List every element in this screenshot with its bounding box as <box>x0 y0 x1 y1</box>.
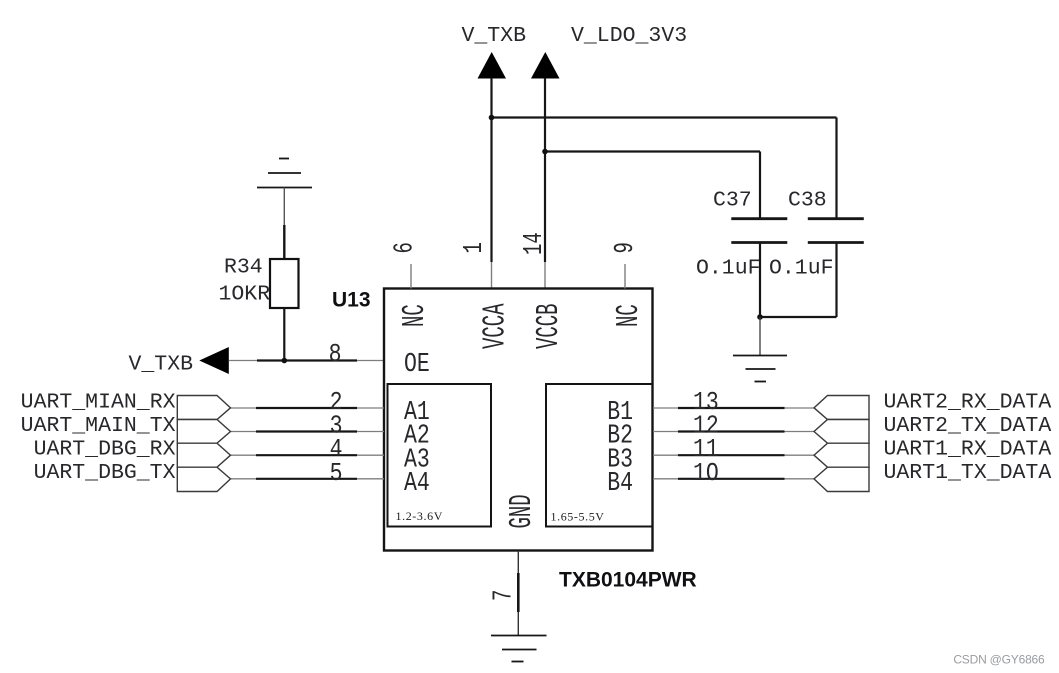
svg-text:OE: OE <box>404 350 430 380</box>
svg-text:CSDN @GY6866: CSDN @GY6866 <box>953 653 1045 667</box>
svg-text:C37: C37 <box>713 189 752 213</box>
svg-text:VCCA: VCCA <box>477 303 513 349</box>
svg-text:1OKR: 1OKR <box>219 283 271 307</box>
svg-text:NC: NC <box>610 304 646 327</box>
svg-text:UART1_TX_DATA: UART1_TX_DATA <box>884 461 1052 485</box>
svg-text:7: 7 <box>489 590 519 601</box>
svg-text:O.1uF: O.1uF <box>696 257 761 281</box>
svg-text:U13: U13 <box>332 289 371 312</box>
svg-text:TXB0104PWR: TXB0104PWR <box>559 569 697 592</box>
svg-text:1.2-3.6V: 1.2-3.6V <box>396 509 443 523</box>
svg-text:V_TXB: V_TXB <box>129 353 194 377</box>
svg-text:8: 8 <box>329 340 342 370</box>
svg-text:O.1uF: O.1uF <box>769 257 834 281</box>
svg-text:A4: A4 <box>404 469 430 499</box>
svg-text:UART2_TX_DATA: UART2_TX_DATA <box>884 414 1052 438</box>
svg-text:14: 14 <box>519 232 549 255</box>
svg-text:NC: NC <box>396 304 432 327</box>
svg-text:B4: B4 <box>607 469 633 499</box>
svg-text:GND: GND <box>503 494 539 528</box>
svg-text:1.65-5.5V: 1.65-5.5V <box>551 510 605 524</box>
svg-text:UART1_RX_DATA: UART1_RX_DATA <box>884 438 1052 462</box>
svg-text:1: 1 <box>459 242 489 253</box>
svg-text:V_LDO_3V3: V_LDO_3V3 <box>571 24 687 48</box>
svg-text:C38: C38 <box>788 189 827 213</box>
svg-text:5: 5 <box>330 459 343 489</box>
svg-text:6: 6 <box>390 242 420 253</box>
svg-text:UART_MIAN_RX: UART_MIAN_RX <box>21 390 176 414</box>
svg-text:UART2_RX_DATA: UART2_RX_DATA <box>884 390 1052 414</box>
svg-text:VCCB: VCCB <box>530 303 566 349</box>
svg-text:V_TXB: V_TXB <box>462 24 527 48</box>
svg-text:UART_DBG_TX: UART_DBG_TX <box>34 461 176 485</box>
svg-text:R34: R34 <box>224 256 263 280</box>
svg-text:UART_DBG_RX: UART_DBG_RX <box>34 438 176 462</box>
svg-text:UART_MAIN_TX: UART_MAIN_TX <box>21 414 176 438</box>
svg-text:9: 9 <box>610 242 640 253</box>
svg-text:1O: 1O <box>693 459 719 489</box>
